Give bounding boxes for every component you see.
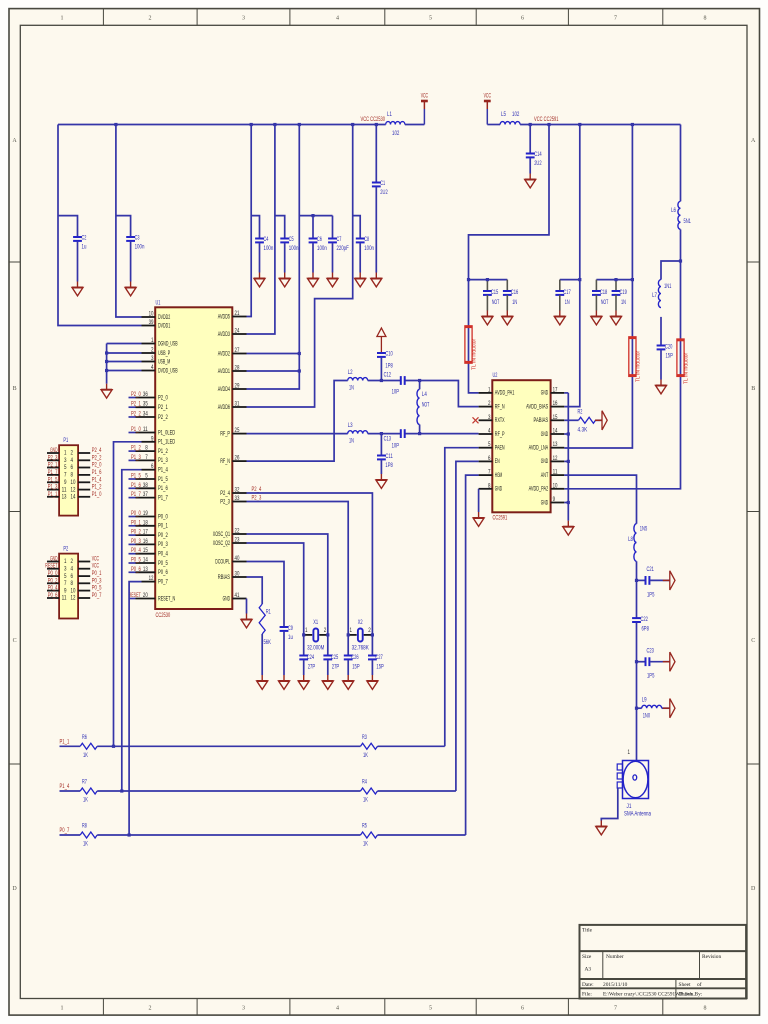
svg-text:AVDD_PA2: AVDD_PA2 (529, 486, 549, 493)
svg-text:PABIAS: PABIAS (534, 417, 549, 424)
svg-text:U1: U1 (156, 300, 161, 307)
svg-text:AVDD5: AVDD5 (218, 313, 231, 320)
U1 pin 31 AVDD6 (232, 406, 246, 408)
wire C17 bus (560, 279, 580, 281)
svg-text:C26: C26 (351, 654, 359, 661)
svg-text:L4: L4 (422, 391, 427, 398)
U1 pin 23 XOSC_Q2 (232, 542, 246, 544)
capacitor C23 to port (637, 661, 646, 663)
capacitor C8 branch (353, 216, 361, 239)
ground below C3 (130, 282, 132, 288)
svg-text:10P: 10P (392, 389, 399, 396)
svg-text:56K: 56K (264, 639, 272, 646)
svg-text:29: 29 (235, 383, 240, 390)
port at L9 (663, 707, 670, 709)
wire EN pin6 to R4 row (456, 461, 479, 791)
svg-text:5: 5 (145, 473, 148, 480)
U1 pin 8 P1_2 (136, 450, 156, 452)
svg-text:5N1: 5N1 (684, 218, 692, 225)
svg-text:100n: 100n (135, 244, 145, 251)
svg-text:12: 12 (553, 455, 558, 462)
U2 pin 4 RF_P (479, 433, 493, 435)
P1 pins 1/2 (47, 452, 59, 454)
wire to SMA antenna (636, 708, 638, 760)
power VCC (left) (423, 101, 425, 109)
svg-text:RF_N: RF_N (220, 458, 230, 465)
wire P2_4 to X2 pin2 (247, 493, 373, 635)
capacitor C25 (327, 635, 329, 656)
op-amp U2 CC2591 body (492, 380, 550, 512)
svg-text:A: A (751, 138, 756, 144)
capacitor C13 (400, 429, 402, 438)
svg-text:3: 3 (151, 355, 154, 362)
svg-text:P1_3: P1_3 (48, 484, 58, 491)
svg-text:C2: C2 (82, 235, 87, 242)
svg-text:GND: GND (495, 486, 503, 493)
svg-text:NOT: NOT (492, 299, 500, 306)
svg-text:P2_3: P2_3 (220, 498, 230, 505)
inductor L3 (348, 431, 368, 434)
svg-text:14: 14 (143, 557, 148, 564)
P2 pins 5/6 (47, 575, 59, 577)
svg-text:20: 20 (143, 592, 148, 599)
svg-text:XOSC_Q2: XOSC_Q2 (213, 540, 231, 547)
wire to C22 (636, 580, 638, 618)
inductor L7 (658, 280, 661, 308)
svg-text:9: 9 (151, 435, 154, 442)
svg-text:D: D (751, 886, 756, 892)
svg-text:15P: 15P (376, 664, 383, 671)
svg-text:L6: L6 (671, 207, 676, 214)
svg-text:P1_0LED: P1_0LED (158, 429, 176, 436)
svg-text:USB_P: USB_P (158, 350, 170, 357)
svg-text:1: 1 (61, 16, 64, 22)
crystal X1 32.000M (304, 634, 313, 636)
svg-text:DVDD2: DVDD2 (158, 314, 171, 321)
svg-text:2: 2 (151, 347, 154, 354)
U2 pin 5 PAEN (479, 447, 493, 449)
svg-text:5: 5 (429, 1006, 432, 1012)
svg-text:1u: 1u (82, 244, 87, 251)
svg-text:C: C (751, 638, 755, 644)
svg-text:8: 8 (71, 580, 74, 587)
svg-text:AVDD_PA1: AVDD_PA1 (495, 390, 515, 397)
capacitor C14 branch (529, 125, 531, 154)
svg-text:AVDD3: AVDD3 (218, 331, 231, 338)
inductor L9 to port (637, 707, 642, 709)
U2 pin 14 GND (551, 433, 565, 435)
svg-text:100n: 100n (264, 245, 274, 252)
svg-text:15: 15 (143, 547, 148, 554)
svg-text:12: 12 (71, 486, 76, 493)
U2 pin 11 ANT (551, 474, 565, 476)
svg-text:AVDD4: AVDD4 (218, 386, 231, 393)
svg-text:P0_7: P0_7 (158, 578, 168, 585)
svg-text:27: 27 (235, 347, 240, 354)
svg-text:5: 5 (64, 464, 67, 471)
svg-text:R4: R4 (362, 779, 367, 786)
svg-text:P0_0: P0_0 (158, 513, 168, 520)
svg-text:24: 24 (235, 328, 240, 335)
svg-text:2: 2 (368, 627, 371, 634)
svg-text:8: 8 (145, 445, 148, 452)
svg-text:7: 7 (64, 472, 67, 479)
svg-text:15P: 15P (352, 664, 359, 671)
svg-text:8: 8 (704, 1006, 707, 1012)
wire L8 to C21 node (636, 561, 638, 580)
svg-text:8: 8 (488, 482, 491, 489)
inductor L1 (386, 122, 405, 125)
inductor L5 (500, 122, 520, 125)
svg-text:13: 13 (62, 494, 67, 501)
svg-text:RBIAS: RBIAS (218, 574, 230, 581)
wire C15 C16 bus (469, 279, 508, 281)
svg-text:P1_5: P1_5 (158, 476, 168, 483)
svg-text:C15: C15 (491, 289, 499, 296)
U1 pin 22 XOSC_Q1 (232, 533, 246, 535)
svg-text:3: 3 (242, 1006, 245, 1012)
U1 pin 15 P0_4 (136, 553, 156, 555)
wire R5 to HGM riser (378, 834, 466, 836)
svg-text:1N: 1N (565, 299, 570, 306)
svg-text:1P8: 1P8 (385, 363, 393, 370)
TL IN inductor (microstrip) 3 (677, 339, 684, 376)
svg-text:C24: C24 (307, 654, 315, 661)
svg-text:P1_1: P1_1 (48, 491, 58, 498)
resistor R5 (361, 832, 378, 838)
capacitor C18 (595, 280, 597, 291)
U1 pin 9 P1_1LED (142, 441, 156, 443)
svg-text:TL IN inductor: TL IN inductor (684, 352, 690, 384)
svg-text:9: 9 (64, 587, 67, 594)
wire rail to AVDD_BIAS pin16 (564, 125, 580, 407)
svg-text:5: 5 (429, 16, 432, 22)
U1 pin 14 P0_5 (136, 562, 156, 564)
P1 pins 13/14 (47, 496, 59, 498)
svg-text:P1_7: P1_7 (48, 469, 58, 476)
svg-text:P0_3: P0_3 (158, 541, 168, 548)
svg-text:P1_2: P1_2 (131, 445, 141, 452)
svg-text:1K: 1K (83, 841, 88, 848)
svg-text:P2_4: P2_4 (92, 447, 102, 454)
svg-text:P1_4: P1_4 (158, 467, 168, 474)
svg-text:P0_5: P0_5 (92, 585, 102, 592)
svg-text:3: 3 (488, 414, 491, 421)
svg-text:C20: C20 (665, 344, 673, 351)
svg-text:RESET_N: RESET_N (158, 595, 175, 602)
svg-text:P0_4: P0_4 (131, 547, 141, 554)
svg-text:L5: L5 (501, 111, 506, 118)
wire L6 to junction (680, 229, 682, 261)
U1 pin 3 USB_M (142, 361, 156, 363)
capacitor C9 (280, 626, 289, 628)
ground below C9 (283, 675, 285, 681)
no-connect X on RXTX (473, 417, 479, 423)
U2 pin 9 GND (551, 502, 565, 504)
svg-text:1K: 1K (83, 797, 88, 804)
ground below J1 (600, 821, 602, 827)
capacitor C26 (347, 635, 349, 656)
svg-text:1P5: 1P5 (647, 592, 655, 599)
svg-text:1: 1 (151, 337, 154, 344)
svg-text:HGM: HGM (495, 472, 502, 479)
capacitor C2 (73, 236, 82, 238)
U1 pin 18 P0_1 (136, 525, 156, 527)
svg-text:P1_4: P1_4 (60, 783, 70, 790)
svg-text:1K: 1K (363, 841, 368, 848)
ground below C20 (660, 380, 662, 386)
wire rail to AVDD_PA1 feed (469, 125, 550, 393)
svg-text:17: 17 (143, 529, 148, 536)
svg-text:RESET: RESET (129, 592, 141, 599)
svg-text:RF_N: RF_N (495, 403, 505, 410)
svg-text:R6: R6 (82, 734, 87, 741)
svg-text:RF_P: RF_P (495, 431, 505, 438)
svg-text:2: 2 (149, 1006, 152, 1012)
wire P1_4 pin6 down to R7 row (122, 470, 142, 791)
svg-text:15P: 15P (666, 353, 673, 360)
op-amp U1 CC2530 body (155, 307, 232, 609)
svg-text:28: 28 (235, 365, 240, 372)
svg-text:1K: 1K (363, 797, 368, 804)
svg-text:11: 11 (553, 469, 558, 476)
svg-text:C22: C22 (641, 616, 649, 623)
U2 pin 12 GND (551, 460, 565, 462)
svg-text:of: of (697, 981, 702, 988)
U1 pin 16 P0_3 (136, 543, 156, 545)
svg-text:GND: GND (541, 390, 549, 397)
wire VCC_CC2591 rail (520, 124, 680, 126)
svg-text:2: 2 (149, 16, 152, 22)
wire R4 to EN riser (378, 790, 456, 792)
U1 pin 24 AVDD3 (232, 333, 246, 335)
capacitor C8 (356, 238, 365, 240)
svg-text:C7: C7 (337, 236, 342, 243)
svg-text:P2_4: P2_4 (220, 490, 230, 497)
svg-text:NOT: NOT (601, 299, 609, 306)
crystal X2 32.768K (348, 634, 357, 636)
svg-text:C16: C16 (511, 289, 519, 296)
wire C2 branch (58, 216, 78, 237)
svg-text:100n: 100n (364, 245, 374, 252)
U1 pin 33 P2_3 (232, 501, 246, 503)
U2 pin 8 GND (479, 488, 493, 490)
P1 pins 7/8 (47, 474, 59, 476)
svg-text:VCC: VCC (92, 563, 100, 570)
svg-text:P0_1: P0_1 (131, 519, 141, 526)
P1 pins 5/6 (47, 467, 59, 469)
svg-text:AVDD1: AVDD1 (218, 368, 231, 375)
svg-text:2015/11/10: 2015/11/10 (603, 982, 628, 988)
wire L1 to VCC (405, 124, 425, 126)
resistor R7 (80, 788, 97, 794)
svg-text:2: 2 (324, 627, 327, 634)
wire rail to AVDD_LNA pin13 (564, 125, 632, 449)
svg-text:25: 25 (235, 427, 240, 434)
svg-text:1N: 1N (349, 438, 354, 445)
svg-text:P1_3: P1_3 (131, 454, 141, 461)
capacitor C3 (126, 236, 135, 238)
svg-text:1P8: 1P8 (385, 462, 393, 469)
U1 pin 13 P0_6 (136, 571, 156, 573)
svg-text:VCC CC2591: VCC CC2591 (534, 116, 559, 123)
svg-text:C10: C10 (385, 351, 393, 358)
svg-text:GND: GND (50, 556, 58, 563)
svg-text:X1: X1 (313, 619, 318, 626)
capacitor C6 (309, 238, 318, 240)
wire U2 pin8 GND down (478, 489, 480, 512)
P1 pins 3/4 (47, 459, 59, 461)
svg-text:100n: 100n (289, 245, 299, 252)
U1 pin 36 P2_0 (136, 397, 156, 399)
P2 pins 3/4 (47, 568, 59, 570)
svg-text:6: 6 (488, 455, 491, 462)
svg-text:1K: 1K (363, 752, 368, 759)
svg-text:P1_0: P1_0 (131, 426, 141, 433)
port at C23 (663, 661, 670, 663)
wire R6 to R3 (97, 745, 360, 747)
svg-text:P0_0: P0_0 (131, 510, 141, 517)
svg-text:L8: L8 (628, 536, 633, 543)
title block (580, 925, 747, 999)
svg-text:40: 40 (235, 555, 240, 562)
svg-text:1N: 1N (621, 299, 626, 306)
svg-text:4: 4 (71, 457, 74, 464)
svg-text:18: 18 (143, 519, 148, 526)
capacitor C10 (377, 352, 386, 354)
svg-text:C8: C8 (364, 236, 369, 243)
svg-text:P2_0: P2_0 (131, 391, 141, 398)
svg-text:XOSC_Q1: XOSC_Q1 (213, 531, 231, 538)
svg-text:GND: GND (541, 431, 549, 438)
svg-text:C14: C14 (534, 151, 542, 158)
capacitor C5 (280, 238, 289, 240)
wire C18 C19 bus (596, 279, 632, 281)
svg-text:13: 13 (553, 441, 558, 448)
capacitor C22 (632, 617, 641, 619)
svg-text:P1_7: P1_7 (131, 491, 141, 498)
svg-text:P0_2: P0_2 (158, 532, 168, 539)
U1 pin 19 P0_0 (136, 516, 156, 518)
wire rail jog to AVDD6 pin31 (247, 125, 353, 408)
svg-text:D: D (12, 886, 17, 892)
connector P1 body (59, 445, 78, 515)
U1 pin 34 P2_2 (136, 416, 156, 418)
svg-text:R5: R5 (362, 823, 367, 830)
svg-text:P2_3: P2_3 (252, 495, 262, 502)
svg-text:NOT: NOT (422, 402, 430, 409)
svg-text:19: 19 (143, 510, 148, 517)
wire U2 GND bus right (564, 392, 568, 394)
svg-text:32.000M: 32.000M (307, 645, 324, 652)
svg-text:23: 23 (235, 537, 240, 544)
svg-text:2U2: 2U2 (380, 189, 388, 196)
svg-text:7: 7 (488, 469, 491, 476)
wire rail to DVDD2 pin10 (116, 125, 142, 318)
capacitor C27 (371, 635, 373, 656)
capacitor C16 (506, 280, 508, 291)
svg-text:35: 35 (143, 401, 148, 408)
svg-text:DVDD_USB: DVDD_USB (158, 367, 178, 374)
svg-text:32.768K: 32.768K (352, 645, 370, 652)
wire GND pin41 down (246, 599, 248, 614)
ground USB (106, 384, 108, 390)
resistor R2 on PABIAS (564, 419, 578, 421)
U1 pin 30 RBIAS (232, 576, 246, 578)
svg-text:B: B (13, 386, 17, 392)
svg-text:C: C (13, 638, 17, 644)
capacitor C15 (486, 280, 488, 291)
resistor R6 (80, 743, 97, 749)
svg-text:P0_7: P0_7 (60, 827, 70, 834)
svg-text:P2_2: P2_2 (92, 454, 102, 461)
svg-text:P2: P2 (63, 546, 68, 553)
connector J1 SMA antenna (623, 761, 649, 799)
svg-text:P2_1: P2_1 (48, 462, 58, 469)
U2 pin 1 AVDD_PA1 (479, 392, 493, 394)
svg-text:21: 21 (235, 310, 240, 317)
U1 pin 20 RESET_N (136, 598, 156, 600)
svg-text:VCC: VCC (484, 93, 492, 100)
svg-text:P1_5: P1_5 (131, 473, 141, 480)
U2 pin 7 HGM (479, 474, 493, 476)
U1 pin 17 P0_2 (136, 534, 156, 536)
svg-text:DGND_USB: DGND_USB (158, 340, 178, 347)
svg-text:30: 30 (235, 571, 240, 578)
svg-text:41: 41 (235, 592, 240, 599)
svg-text:C17: C17 (563, 289, 571, 296)
svg-text:CC2591: CC2591 (493, 515, 508, 522)
wire rail to DVDD1 pin39 (58, 125, 142, 326)
svg-text:10: 10 (149, 311, 154, 318)
inductor L8 (634, 524, 637, 562)
svg-text:12: 12 (149, 575, 154, 582)
svg-text:P2_0: P2_0 (92, 462, 102, 469)
U2 pin 17 GND (551, 392, 565, 394)
svg-text:P1_3: P1_3 (158, 457, 168, 464)
svg-text:VCC: VCC (421, 93, 429, 100)
wire C12 to U2 RF_N pin2 (405, 381, 478, 407)
wire row1 left (60, 745, 81, 747)
svg-text:AVDD_LNA: AVDD_LNA (529, 445, 549, 452)
power arrow above C10 (377, 328, 386, 337)
svg-text:GND: GND (50, 447, 58, 454)
svg-text:2: 2 (488, 400, 491, 407)
U1 pin 37 P1_7 (136, 497, 156, 499)
svg-text:RXTX: RXTX (495, 417, 505, 424)
svg-text:1: 1 (488, 386, 491, 393)
wire XOSC_Q1 to X1 pin2 (247, 534, 328, 635)
svg-text:P1_1LED: P1_1LED (158, 439, 176, 446)
TL IN inductor (microstrip) 1 (465, 326, 472, 363)
wire HGM pin7 to R5 row (466, 475, 479, 835)
capacitor C19 (615, 280, 617, 291)
svg-text:15: 15 (553, 414, 558, 421)
svg-text:39: 39 (149, 319, 154, 326)
svg-text:10: 10 (71, 479, 76, 486)
svg-text:8: 8 (71, 472, 74, 479)
svg-text:1: 1 (628, 749, 631, 756)
svg-text:U2: U2 (493, 372, 498, 379)
svg-text:220pF: 220pF (337, 245, 349, 252)
ground below pin41 (246, 614, 248, 620)
svg-text:GND: GND (541, 499, 549, 506)
svg-text:R3: R3 (362, 734, 367, 741)
svg-text:GND: GND (223, 595, 231, 602)
P1 pins 11/12 (47, 489, 59, 491)
svg-text:R8: R8 (82, 823, 87, 830)
capacitor C14 (526, 153, 535, 155)
